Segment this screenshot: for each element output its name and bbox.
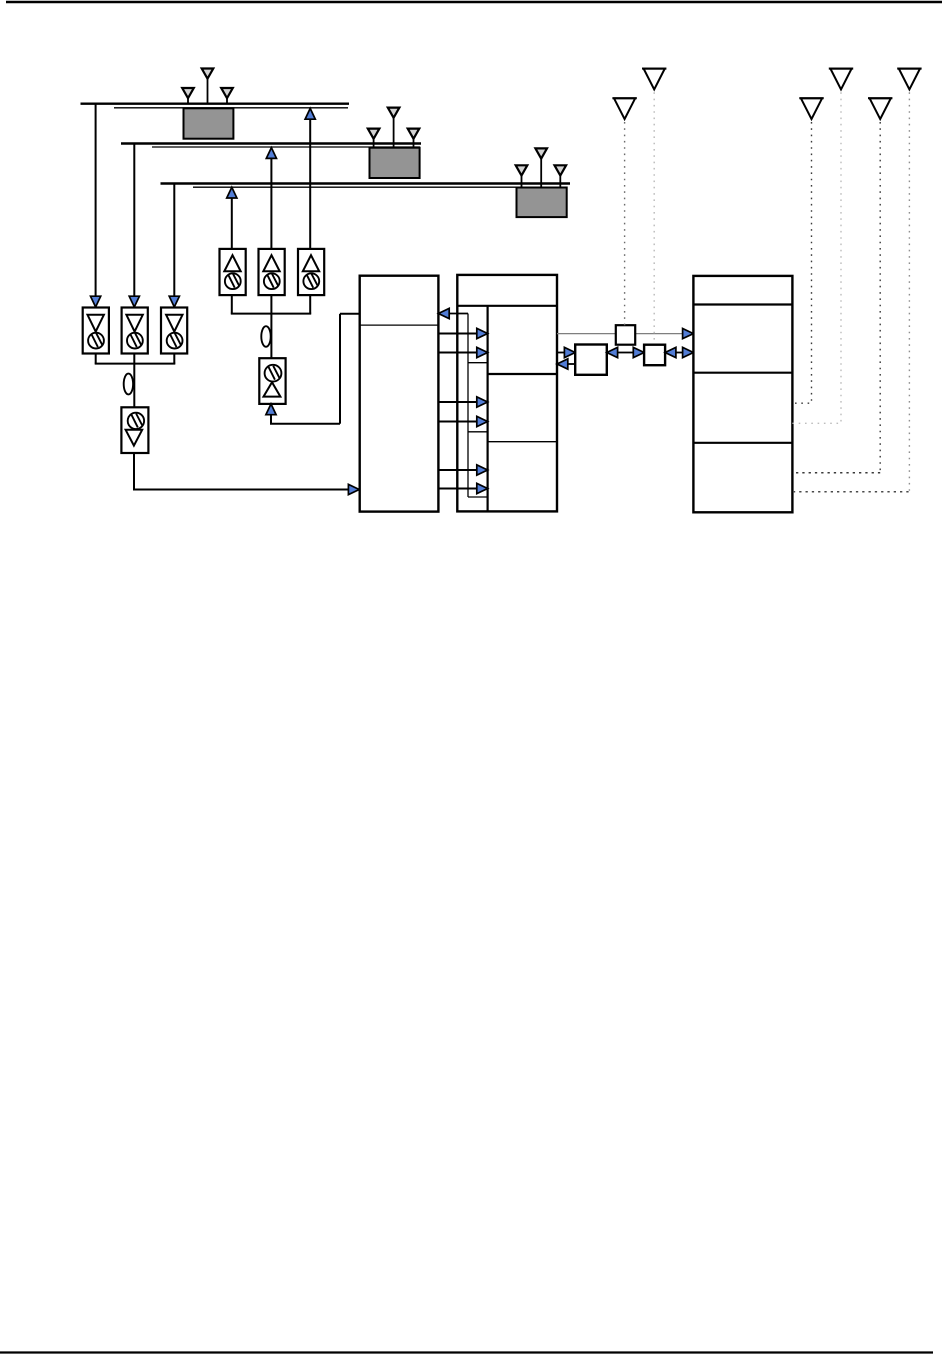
uplink amplifier M1 <box>220 249 246 295</box>
bus 3 upper line <box>161 182 571 184</box>
uplink amplifier M3 <box>298 249 324 295</box>
arrow into coupler <box>564 347 575 357</box>
uplink pad box <box>259 358 285 404</box>
donor antenna 4 <box>830 69 851 90</box>
remote unit 3 antenna centre <box>540 157 542 188</box>
wire M3 to bus1 <box>309 119 311 249</box>
arrow control into box C <box>683 329 694 339</box>
downlink attenuator A1 <box>83 308 109 354</box>
arrow into B port 6 <box>477 483 488 493</box>
donor antenna 6 <box>899 69 920 90</box>
uplink amplifier M2 <box>259 249 285 295</box>
wire B to coupler <box>557 352 565 354</box>
wire downlink to repeater input <box>133 453 349 490</box>
bus 2 lower line <box>152 146 420 148</box>
arrow into uplink pad <box>266 404 276 415</box>
wire A to B port 5 <box>438 469 477 471</box>
dotted feeder antenna 1 <box>624 122 626 325</box>
BTS interface box B <box>457 275 557 512</box>
remote unit 3 antenna right <box>559 174 561 188</box>
remote unit 1 antenna left <box>187 96 189 104</box>
wire A to B port 1 <box>438 333 477 335</box>
control line B to C <box>557 333 683 335</box>
remote unit 2 antenna right <box>413 137 415 148</box>
box B combiner column wires <box>468 314 488 498</box>
cable loop 2 <box>261 326 270 347</box>
donor antenna 5 <box>870 98 891 119</box>
page bottom border <box>0 1351 933 1353</box>
arrow into B port 2 <box>477 347 488 357</box>
cable loop 1 <box>124 374 133 395</box>
wire bus3 to attenuator A3 <box>173 184 175 298</box>
downlink attenuator A2 <box>122 308 148 354</box>
uplink splitter wires <box>231 295 311 358</box>
wire M2 to bus2 <box>270 158 272 249</box>
arrow into interface box 3 <box>633 347 644 357</box>
remote unit 1 antenna right <box>226 96 228 104</box>
wire A to B port 4 <box>438 421 477 423</box>
box B module divider 1 <box>488 373 557 375</box>
wire M1 to bus3 <box>231 198 233 249</box>
wire interface to BTS <box>676 352 683 354</box>
arrow into attenuator A1 <box>91 296 101 307</box>
page top border <box>6 1 942 3</box>
wire A to B port 2 <box>438 352 477 354</box>
arrow into interface from BTS <box>665 347 676 357</box>
wire coupler to B <box>568 363 576 365</box>
donor antenna 1 <box>614 98 635 119</box>
remote unit 2 antenna left <box>373 137 375 148</box>
arrow into BTS box C <box>683 347 694 357</box>
wire A to B port 6 <box>438 488 477 490</box>
BTS box C <box>693 276 792 512</box>
remote unit 2 box <box>370 148 420 178</box>
monitor box 1 <box>616 325 635 345</box>
arrow into attenuator A3 <box>169 296 179 307</box>
arrow into box B return <box>557 359 568 369</box>
dotted feeder antenna 4 <box>792 92 841 423</box>
arrow into B port 4 <box>477 416 488 426</box>
bus 2 upper line <box>121 142 421 144</box>
downlink pad box <box>121 407 148 453</box>
wire A to B port 3 <box>438 401 477 403</box>
dotted feeder antenna 3 <box>792 122 811 403</box>
arrow M1 into bus3 <box>227 187 237 198</box>
dotted feeder antenna 5 horizontal <box>792 472 880 474</box>
wire bus2 to attenuator A2 <box>133 144 135 298</box>
interface box 3 <box>644 345 665 366</box>
remote unit 2 antenna centre <box>393 116 395 148</box>
donor antenna 3 <box>801 98 822 119</box>
bus 3 lower line <box>193 186 567 188</box>
bus 1 lower line <box>114 107 348 109</box>
arrow into box A return <box>438 308 449 318</box>
remote unit 1 box <box>184 108 234 138</box>
dotted feeder antenna 6 horizontal <box>792 491 908 493</box>
dotted feeder antenna 5 vertical <box>879 122 881 473</box>
downlink combiner wires <box>95 354 176 408</box>
arrow into B port 5 <box>477 465 488 475</box>
wire repeater to uplink pad <box>270 314 360 424</box>
repeater unit box A <box>360 276 439 512</box>
wire B to A return <box>449 313 468 315</box>
wire bus1 to attenuator A1 <box>95 104 97 298</box>
wire coupler to interface <box>618 352 634 354</box>
dotted feeder antenna 2 <box>653 92 655 343</box>
remote unit 3 box <box>517 188 567 218</box>
downlink attenuator A3 <box>161 308 187 354</box>
arrow into B port 1 <box>477 328 488 338</box>
arrow into repeater input <box>348 484 359 494</box>
arrow into B port 3 <box>477 397 488 407</box>
arrow M2 into bus2 <box>266 148 276 159</box>
bus 1 upper line <box>81 102 350 104</box>
remote unit 1 antenna centre <box>207 77 209 104</box>
donor antenna 2 <box>644 69 665 90</box>
coupler box 2 <box>575 345 607 375</box>
arrow into attenuator A2 <box>129 296 139 307</box>
arrow into coupler from interface <box>607 347 618 357</box>
dotted feeder antenna 6 vertical <box>908 92 910 491</box>
box B module divider 2 <box>488 441 557 443</box>
remote unit 3 antenna left <box>521 174 523 188</box>
arrow M3 into bus1 <box>305 108 315 119</box>
